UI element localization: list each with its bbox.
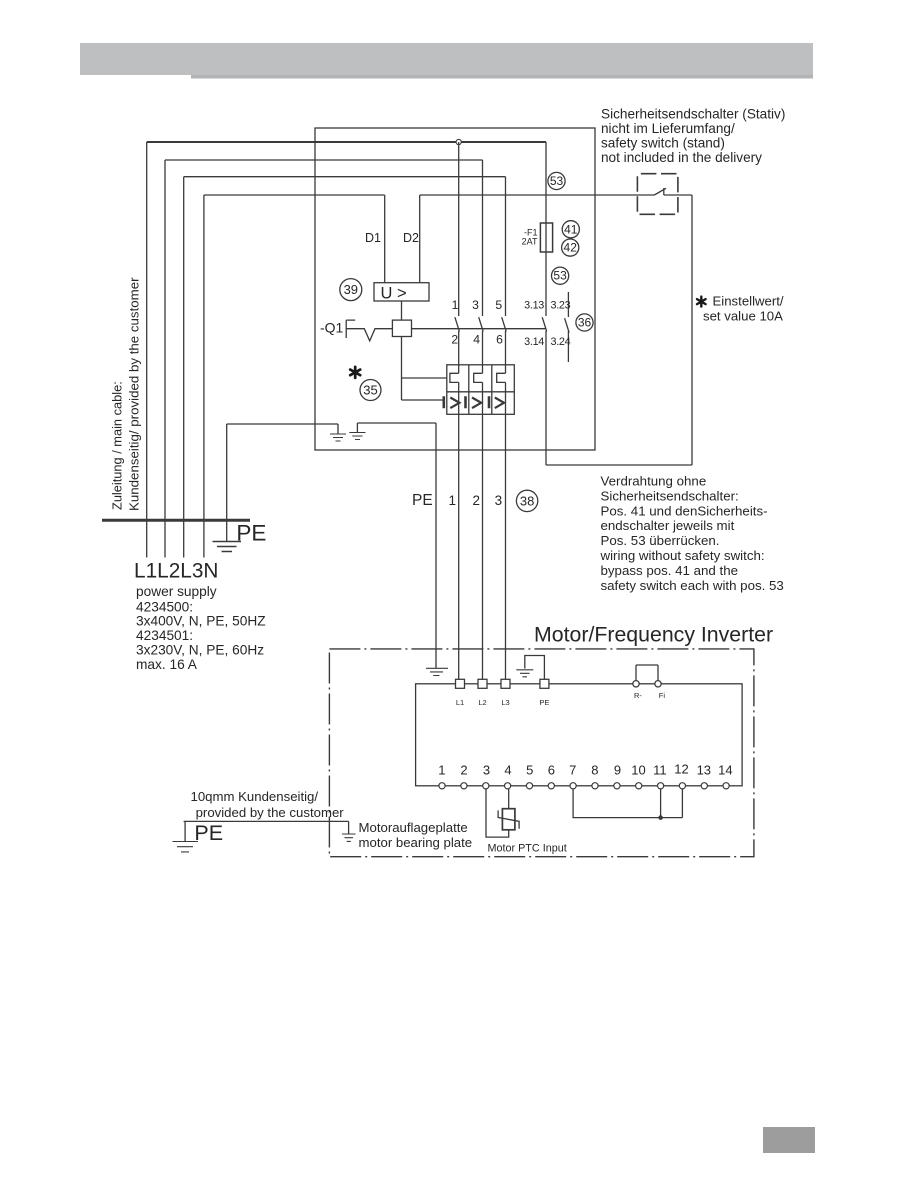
svg-text:38: 38 <box>520 493 534 508</box>
svg-text:3.14: 3.14 <box>524 336 544 348</box>
svg-text:10: 10 <box>631 763 645 778</box>
svg-text:Sicherheitsendschalter:: Sicherheitsendschalter: <box>601 488 739 503</box>
svg-text:35: 35 <box>363 383 377 398</box>
svg-text:max. 16 A: max. 16 A <box>136 657 198 672</box>
svg-text:nicht im Lieferumfang/: nicht im Lieferumfang/ <box>601 121 735 136</box>
svg-text:11: 11 <box>653 763 667 778</box>
svg-text:7: 7 <box>569 763 576 778</box>
svg-text:Motorauflageplatte: Motorauflageplatte <box>359 820 468 835</box>
svg-text:14: 14 <box>718 763 732 778</box>
svg-text:5: 5 <box>495 298 502 312</box>
svg-text:Motor PTC Input: Motor PTC Input <box>488 843 567 855</box>
svg-text:3x400V, N, PE, 50HZ: 3x400V, N, PE, 50HZ <box>136 614 266 629</box>
svg-text:4: 4 <box>504 763 511 778</box>
svg-text:Pos. 53 überrücken.: Pos. 53 überrücken. <box>601 533 720 548</box>
svg-text:R-: R- <box>634 691 642 700</box>
svg-text:2AT: 2AT <box>522 237 538 247</box>
svg-text:L2: L2 <box>478 698 486 707</box>
svg-text:bypass pos. 41 and the: bypass pos. 41 and the <box>601 563 739 578</box>
svg-text:Kundenseitig/ provided by the: Kundenseitig/ provided by the customer <box>127 277 142 511</box>
svg-text:provided by the customer: provided by the customer <box>196 805 345 820</box>
svg-text:13: 13 <box>697 763 711 778</box>
svg-text:3: 3 <box>495 493 503 508</box>
svg-text:Verdrahtung ohne: Verdrahtung ohne <box>601 474 707 489</box>
svg-text:1: 1 <box>448 493 456 508</box>
svg-text:Pos. 41 und denSicherheits-: Pos. 41 und denSicherheits- <box>601 503 768 518</box>
svg-text:12: 12 <box>674 762 688 777</box>
svg-text:L3: L3 <box>501 698 509 707</box>
svg-text:3.13: 3.13 <box>524 300 544 312</box>
svg-text:D2: D2 <box>403 231 419 245</box>
svg-text:4234501:: 4234501: <box>136 628 193 643</box>
svg-text:Fi: Fi <box>659 691 666 700</box>
svg-text:motor bearing plate: motor bearing plate <box>359 835 473 850</box>
svg-text:-Q1: -Q1 <box>320 320 344 336</box>
svg-text:3.24: 3.24 <box>551 336 571 348</box>
svg-text:41: 41 <box>564 222 578 236</box>
svg-text:53: 53 <box>550 174 564 188</box>
svg-text:2: 2 <box>460 763 467 778</box>
svg-text:endschalter jeweils mit: endschalter jeweils mit <box>601 518 735 533</box>
svg-text:safety switch each with pos. 5: safety switch each with pos. 53 <box>601 578 784 593</box>
svg-text:Motor/Frequency Inverter: Motor/Frequency Inverter <box>534 623 773 647</box>
svg-text:42: 42 <box>564 241 578 255</box>
svg-text:10qmm Kundenseitig/: 10qmm Kundenseitig/ <box>191 789 319 804</box>
svg-text:3.23: 3.23 <box>551 300 571 312</box>
svg-text:53: 53 <box>553 269 567 283</box>
svg-text:2: 2 <box>472 493 480 508</box>
svg-text:3: 3 <box>483 763 490 778</box>
svg-text:PE: PE <box>194 821 223 845</box>
svg-text:U >: U > <box>381 284 407 302</box>
svg-text:wiring without safety switch:: wiring without safety switch: <box>600 548 765 563</box>
svg-text:8: 8 <box>591 763 598 778</box>
svg-text:4234500:: 4234500: <box>136 599 193 614</box>
svg-text:Sicherheitsendschalter (Stativ: Sicherheitsendschalter (Stativ) <box>601 107 785 122</box>
svg-text:1: 1 <box>438 763 445 778</box>
svg-text:Einstellwert/: Einstellwert/ <box>713 294 784 309</box>
svg-text:Zuleitung / main cable:: Zuleitung / main cable: <box>110 381 125 510</box>
svg-text:39: 39 <box>344 282 358 297</box>
svg-text:L1L2L3N: L1L2L3N <box>134 560 218 583</box>
svg-text:PE: PE <box>236 521 266 546</box>
svg-text:D1: D1 <box>365 231 381 245</box>
svg-text:6: 6 <box>496 333 503 347</box>
svg-text:PE: PE <box>412 492 433 509</box>
svg-text:set value 10A: set value 10A <box>703 309 783 324</box>
svg-text:3: 3 <box>472 298 479 312</box>
svg-text:4: 4 <box>473 333 480 347</box>
svg-text:9: 9 <box>614 763 621 778</box>
svg-text:5: 5 <box>526 763 533 778</box>
svg-text:1: 1 <box>452 298 459 312</box>
svg-text:6: 6 <box>548 763 555 778</box>
svg-text:safety switch (stand): safety switch (stand) <box>601 136 725 151</box>
svg-text:PE: PE <box>539 698 549 707</box>
svg-text:2: 2 <box>451 333 458 347</box>
svg-text:not included in the delivery: not included in the delivery <box>601 150 762 165</box>
svg-text:power supply: power supply <box>136 584 217 599</box>
svg-text:L1: L1 <box>456 698 464 707</box>
svg-text:36: 36 <box>578 316 592 330</box>
svg-text:3x230V, N, PE, 60Hz: 3x230V, N, PE, 60Hz <box>136 643 264 658</box>
